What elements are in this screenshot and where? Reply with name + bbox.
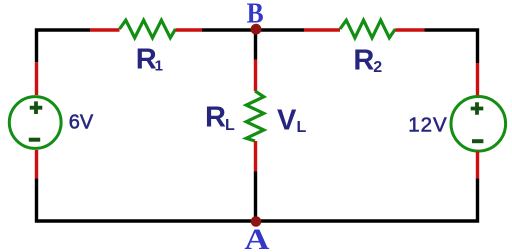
- plus sign left source: [30, 101, 43, 114]
- wire top wire black right: [424, 30, 477, 63]
- minus sign right source: [472, 139, 483, 143]
- wire R2 left red lead: [304, 28, 340, 31]
- wire middle branch top black: [254, 30, 257, 60]
- resistor RL: [246, 91, 264, 141]
- svg-text:B: B: [247, 0, 264, 29]
- wire middle branch bottom black: [254, 172, 257, 222]
- plus sign right source: [471, 102, 484, 115]
- wire top wire black left: [37, 30, 91, 62]
- wire RL top red lead: [254, 60, 257, 91]
- wire RL bottom red lead: [254, 141, 257, 172]
- voltage source 6V: [9, 97, 61, 149]
- node A: [251, 216, 262, 227]
- wire right source bottom red stub: [476, 152, 479, 179]
- wire R1 left red lead: [90, 28, 120, 31]
- svg-text:R: R: [205, 102, 226, 134]
- node B: [251, 24, 262, 35]
- wire left source bottom red stub: [35, 150, 38, 178]
- svg-text:L: L: [225, 117, 235, 134]
- minus sign left source: [29, 138, 40, 142]
- svg-text:V: V: [277, 105, 297, 137]
- wire bottom-right black segment: [256, 178, 478, 221]
- voltage source 12V: [451, 97, 506, 152]
- wire R1 right red lead: [176, 28, 203, 31]
- svg-text:6V: 6V: [69, 111, 94, 133]
- svg-text:2: 2: [373, 59, 382, 76]
- svg-text:A: A: [244, 223, 269, 252]
- wire left source top red stub: [35, 62, 38, 95]
- svg-text:R: R: [353, 45, 374, 77]
- svg-text:12V: 12V: [408, 114, 447, 137]
- wire R2 right red lead: [395, 28, 424, 31]
- wire right source top red stub: [476, 63, 479, 96]
- resistor R2: [340, 20, 395, 38]
- svg-text:L: L: [297, 119, 307, 136]
- wire top middle black segment: [202, 28, 304, 31]
- resistor R1: [120, 20, 176, 38]
- svg-text:1: 1: [155, 57, 163, 74]
- wire top-left black segment: [37, 178, 256, 221]
